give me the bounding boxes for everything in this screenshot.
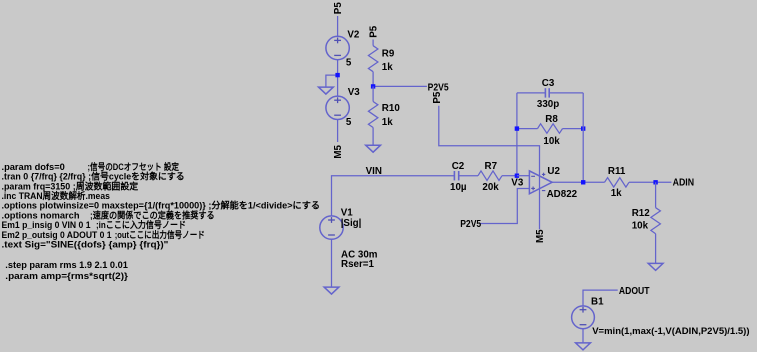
wire feedback left branch <box>516 93 518 176</box>
op-amp U2 <box>529 171 552 194</box>
svg-text:B1: B1 <box>591 297 604 308</box>
op-amp input - marker <box>531 175 535 177</box>
svg-text:330p: 330p <box>537 99 559 110</box>
svg-text:10k: 10k <box>543 136 560 147</box>
op-amp input + marker <box>531 187 535 189</box>
svg-text:C3: C3 <box>542 78 555 89</box>
svg-text:Em1 p_insig 0 VIN 0 1: Em1 p_insig 0 VIN 0 1 <box>2 220 91 230</box>
svg-text:C2: C2 <box>452 161 465 172</box>
svg-text:10k: 10k <box>632 221 649 232</box>
svg-text:.options nomarch: .options nomarch <box>2 210 80 220</box>
svg-text:ADOUT: ADOUT <box>619 286 650 297</box>
svg-text:VIN: VIN <box>366 166 382 177</box>
ground (V1) <box>324 287 339 294</box>
wire op-amp output <box>552 181 604 183</box>
svg-text:U2: U2 <box>547 166 560 177</box>
resistor R10 <box>368 102 378 128</box>
wire R10 bottom lead <box>372 128 374 146</box>
wire non-inverting input to P2V5 <box>480 189 530 224</box>
wire R8 left lead <box>517 128 538 130</box>
voltage source V2 <box>326 36 349 59</box>
svg-text:.inc TRAN周波数解析.meas: .inc TRAN周波数解析.meas <box>2 190 110 201</box>
svg-text:ADIN: ADIN <box>673 177 695 188</box>
bv source B1 <box>572 306 595 329</box>
svg-text:Em2 p_outsig 0 ADOUT 0 1: Em2 p_outsig 0 ADOUT 0 1 <box>2 230 112 240</box>
node junction R8 right <box>581 126 585 130</box>
voltage source V1 <box>320 216 343 239</box>
svg-text:1k: 1k <box>382 117 393 128</box>
wire C2 to R7 <box>459 175 478 177</box>
op-amp V+ marker <box>542 173 545 175</box>
svg-text:;outここに出力信号ノード: ;outここに出力信号ノード <box>115 229 205 240</box>
svg-text:;信号のDCオフセット 設定: ;信号のDCオフセット 設定 <box>88 161 180 172</box>
svg-text:R8: R8 <box>545 114 558 125</box>
node junction R9/R10 <box>371 84 375 88</box>
wire ground tap <box>326 75 338 87</box>
wire V1 bottom lead <box>331 239 333 287</box>
wire R9 top lead <box>372 40 374 46</box>
wire R12 bottom lead <box>655 234 657 264</box>
svg-text:|Sig|: |Sig| <box>341 218 362 229</box>
svg-text:P5: P5 <box>432 91 443 104</box>
resistor R8 <box>538 124 563 134</box>
resistor R11 <box>605 178 630 188</box>
wire P5 to op-amp V+ <box>439 106 540 167</box>
wire V2 to V3 <box>337 60 339 97</box>
svg-text:5: 5 <box>346 117 352 128</box>
svg-text:.param frq=3150 ;周波数範囲設定: .param frq=3150 ;周波数範囲設定 <box>2 180 139 191</box>
node junction inverting input <box>515 174 519 178</box>
svg-text:R7: R7 <box>485 161 498 172</box>
wire R9 to junction <box>372 72 374 87</box>
op-amp V- marker <box>542 190 545 192</box>
svg-text:V=min(1,max(-1,V(ADIN,P2V5)/1.: V=min(1,max(-1,V(ADIN,P2V5)/1.5)) <box>592 326 749 337</box>
wire VIN net <box>332 176 455 217</box>
ground (V2/V3 midpoint) <box>319 87 334 94</box>
svg-text:.tran 0 {7/frq} {2/frq} ;信号cyc: .tran 0 {7/frq} {2/frq} ;信号cycleを対象にする <box>2 171 185 182</box>
svg-text:.param amp={rms*sqrt(2)}: .param amp={rms*sqrt(2)} <box>5 271 128 282</box>
svg-text:P5: P5 <box>369 25 380 38</box>
svg-text:P2V5: P2V5 <box>460 219 481 230</box>
svg-text:M5: M5 <box>535 229 546 243</box>
wire inverting input <box>517 175 530 177</box>
svg-text:V2: V2 <box>347 29 360 40</box>
ground (R12) <box>648 263 663 270</box>
resistor R7 <box>478 171 502 181</box>
svg-text:.options plotwinsize=0 maxstep: .options plotwinsize=0 maxstep={1/(frq*1… <box>2 200 321 211</box>
wire C3 left lead <box>517 92 546 94</box>
wire V2 top feed <box>337 16 339 36</box>
ground (B1) <box>576 343 591 350</box>
svg-text:M5: M5 <box>333 144 344 158</box>
svg-text:R10: R10 <box>382 103 401 114</box>
svg-text:Rser=1: Rser=1 <box>341 259 375 270</box>
wire R7 to inverting node <box>502 175 517 177</box>
svg-text:;inここに入力信号ノード: ;inここに入力信号ノード <box>96 219 186 230</box>
wire op-amp V- supply <box>539 167 541 230</box>
svg-text:V3: V3 <box>511 178 524 189</box>
svg-text:10µ: 10µ <box>450 182 467 193</box>
svg-text:.text Sig="SINE({dofs} {amp} {: .text Sig="SINE({dofs} {amp} {frq})" <box>2 240 169 250</box>
svg-text:R11: R11 <box>608 166 626 177</box>
wire R8 right lead <box>563 128 584 130</box>
svg-text:1k: 1k <box>611 188 622 199</box>
node junction ADIN/R12 <box>653 180 657 184</box>
resistor R9 <box>368 46 378 72</box>
svg-text:P5: P5 <box>333 2 344 15</box>
ground (R10) <box>366 145 381 152</box>
svg-text:.step param rms 1.9 2.1 0.01: .step param rms 1.9 2.1 0.01 <box>5 260 128 271</box>
voltage source V3 <box>326 96 349 119</box>
svg-text:.param dofs=0: .param dofs=0 <box>2 162 65 172</box>
node junction output <box>581 180 585 184</box>
wire V3 bottom <box>337 120 339 143</box>
svg-text:V3: V3 <box>348 87 361 98</box>
node junction V2-V3 <box>335 73 339 77</box>
svg-text:1k: 1k <box>382 62 393 73</box>
wire C3 right lead <box>549 92 583 94</box>
wire B1 bottom lead <box>582 329 584 343</box>
resistor R12 <box>651 208 661 234</box>
wire R11 to ADIN <box>629 181 671 183</box>
wire R10 top lead <box>372 86 374 101</box>
capacitor C2 <box>453 171 455 180</box>
svg-text:R12: R12 <box>632 208 651 219</box>
wire feedback right branch <box>582 93 584 182</box>
wire junction to P2V5 label <box>373 85 427 87</box>
svg-text:R9: R9 <box>382 49 395 60</box>
wire R12 top lead <box>655 182 657 207</box>
wire ADOUT net <box>583 290 618 306</box>
node junction R8 left <box>515 126 519 130</box>
capacitor C3 <box>544 88 546 97</box>
svg-text:20k: 20k <box>482 182 499 193</box>
svg-text:5: 5 <box>346 57 352 68</box>
svg-text:AD822: AD822 <box>547 189 578 200</box>
svg-text:;速度の関係でこの定義を推奨する: ;速度の関係でこの定義を推奨する <box>90 209 215 220</box>
